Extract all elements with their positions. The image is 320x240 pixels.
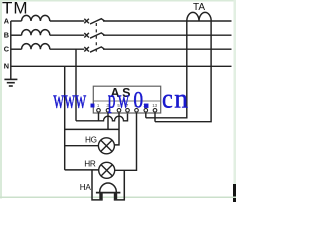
- ammeter switch AS box: [93, 86, 160, 113]
- TA secondary lead right (wire V2): [155, 21, 211, 122]
- left bus vertical wire: [10, 21, 12, 79]
- AS terminal 5: [135, 109, 139, 113]
- lamp HR label: [84, 159, 96, 168]
- svg-text:w: w: [75, 84, 86, 113]
- ground: [4, 79, 17, 86]
- svg-text:w: w: [53, 84, 64, 113]
- wire HR left lead: [65, 169, 99, 171]
- svg-text:0: 0: [133, 87, 143, 113]
- AS terminal 7: [153, 109, 157, 113]
- svg-text:HG: HG: [85, 135, 97, 144]
- watermark www.pw0.cn: [53, 83, 188, 113]
- AS terminal 4: [126, 109, 130, 113]
- svg-text:n: n: [174, 84, 188, 114]
- svg-text:C: C: [4, 45, 10, 54]
- svg-text:B: B: [4, 31, 9, 40]
- green page border top: [0, 0, 236, 2]
- svg-text:HA: HA: [80, 183, 92, 192]
- stub terminal 6: [145, 113, 147, 118]
- bell HA label: [80, 183, 92, 192]
- current transformer TA label: [193, 2, 205, 13]
- page background: [0, 0, 236, 202]
- svg-text:p: p: [108, 84, 116, 113]
- stub terminal 5 to HR: [115, 113, 137, 170]
- TM winding phase C: [11, 44, 85, 50]
- breaker pole phase A: [84, 19, 231, 24]
- dark mark bottom-right edge: [233, 184, 236, 202]
- lamp HG label: [85, 135, 97, 144]
- green page border right: [234, 0, 236, 184]
- wire HG left lead: [65, 145, 99, 147]
- wire bell right lead: [114, 170, 125, 200]
- breaker pole phase C: [84, 47, 231, 52]
- svg-text:A: A: [4, 16, 10, 25]
- green separator line bottom: [0, 196, 236, 198]
- stub terminal 1: [98, 113, 100, 121]
- svg-text:HR: HR: [84, 159, 96, 168]
- green page border left: [0, 0, 2, 198]
- lamp HR: [99, 162, 115, 178]
- wire from neutral down (R1): [64, 66, 66, 170]
- TM winding phase B: [11, 30, 85, 36]
- wire from line C down (R2): [75, 49, 77, 121]
- wire W2: [65, 128, 119, 130]
- TA secondary lead left (wire V1): [146, 21, 187, 118]
- AS terminal numbers: [97, 103, 158, 108]
- breaker pole phase B: [84, 33, 231, 38]
- neutral wire N: [11, 65, 232, 67]
- AS terminal 1: [97, 109, 101, 113]
- transformer TM label: [2, 0, 29, 18]
- svg-text:TA: TA: [193, 2, 205, 13]
- svg-text:c: c: [162, 83, 173, 113]
- AS terminal 6: [144, 109, 148, 113]
- svg-text:w: w: [118, 84, 130, 113]
- svg-text:N: N: [4, 62, 9, 71]
- wire bell left lead: [92, 170, 103, 200]
- stub terminal 2: [107, 113, 109, 129]
- neutral label N: [4, 62, 9, 71]
- bell HA: [96, 183, 121, 199]
- stub terminal 7: [154, 113, 156, 122]
- phase label A: [4, 16, 10, 25]
- svg-text:w: w: [64, 84, 75, 113]
- lamp HG: [98, 138, 114, 154]
- wire W1 with crossover hops to terminal 4: [76, 113, 128, 121]
- TM winding phase A: [11, 15, 85, 21]
- phase label B: [4, 31, 9, 40]
- svg-text:13: 13: [152, 103, 157, 108]
- current transformer TA winding: [187, 12, 211, 21]
- svg-text:TM: TM: [2, 0, 29, 18]
- AS terminal 3: [117, 109, 121, 113]
- stub terminal 3 to HG: [114, 113, 119, 145]
- breaker linkage dashed: [95, 23, 97, 52]
- AS terminal 2: [106, 109, 110, 113]
- phase label C: [4, 45, 10, 54]
